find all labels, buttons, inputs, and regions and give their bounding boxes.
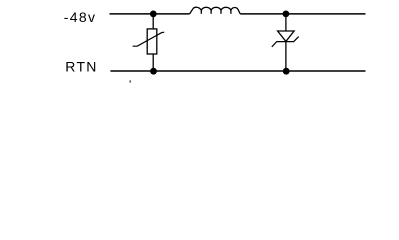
junction node: varistor / bottom rail <box>150 68 157 75</box>
wire bottom rail (RTN bus) <box>110 70 365 72</box>
svg-text:-48v: -48v <box>64 9 97 25</box>
inductor L1 <box>190 7 241 14</box>
wire TVS top lead <box>285 14 287 31</box>
wire top rail right segment <box>240 13 365 15</box>
junction node: TVS / top rail <box>283 11 290 18</box>
wire TVS bottom lead <box>285 42 287 71</box>
svg-text:RTN: RTN <box>65 59 97 75</box>
TVS diode D1 (zener) triangle <box>278 31 295 41</box>
wire varistor top lead <box>152 14 154 29</box>
stray speck mark <box>130 80 131 82</box>
varistor RV1 diagonal stroke <box>133 32 165 46</box>
junction node: varistor / top rail <box>150 11 157 18</box>
wire varistor bottom lead <box>152 54 154 71</box>
wire top rail left segment (-48v bus) <box>110 13 190 15</box>
junction node: TVS / bottom rail <box>283 68 290 75</box>
varistor RV1 body <box>147 29 157 54</box>
TVS diode D1 zener bar with bent ends <box>272 37 299 47</box>
